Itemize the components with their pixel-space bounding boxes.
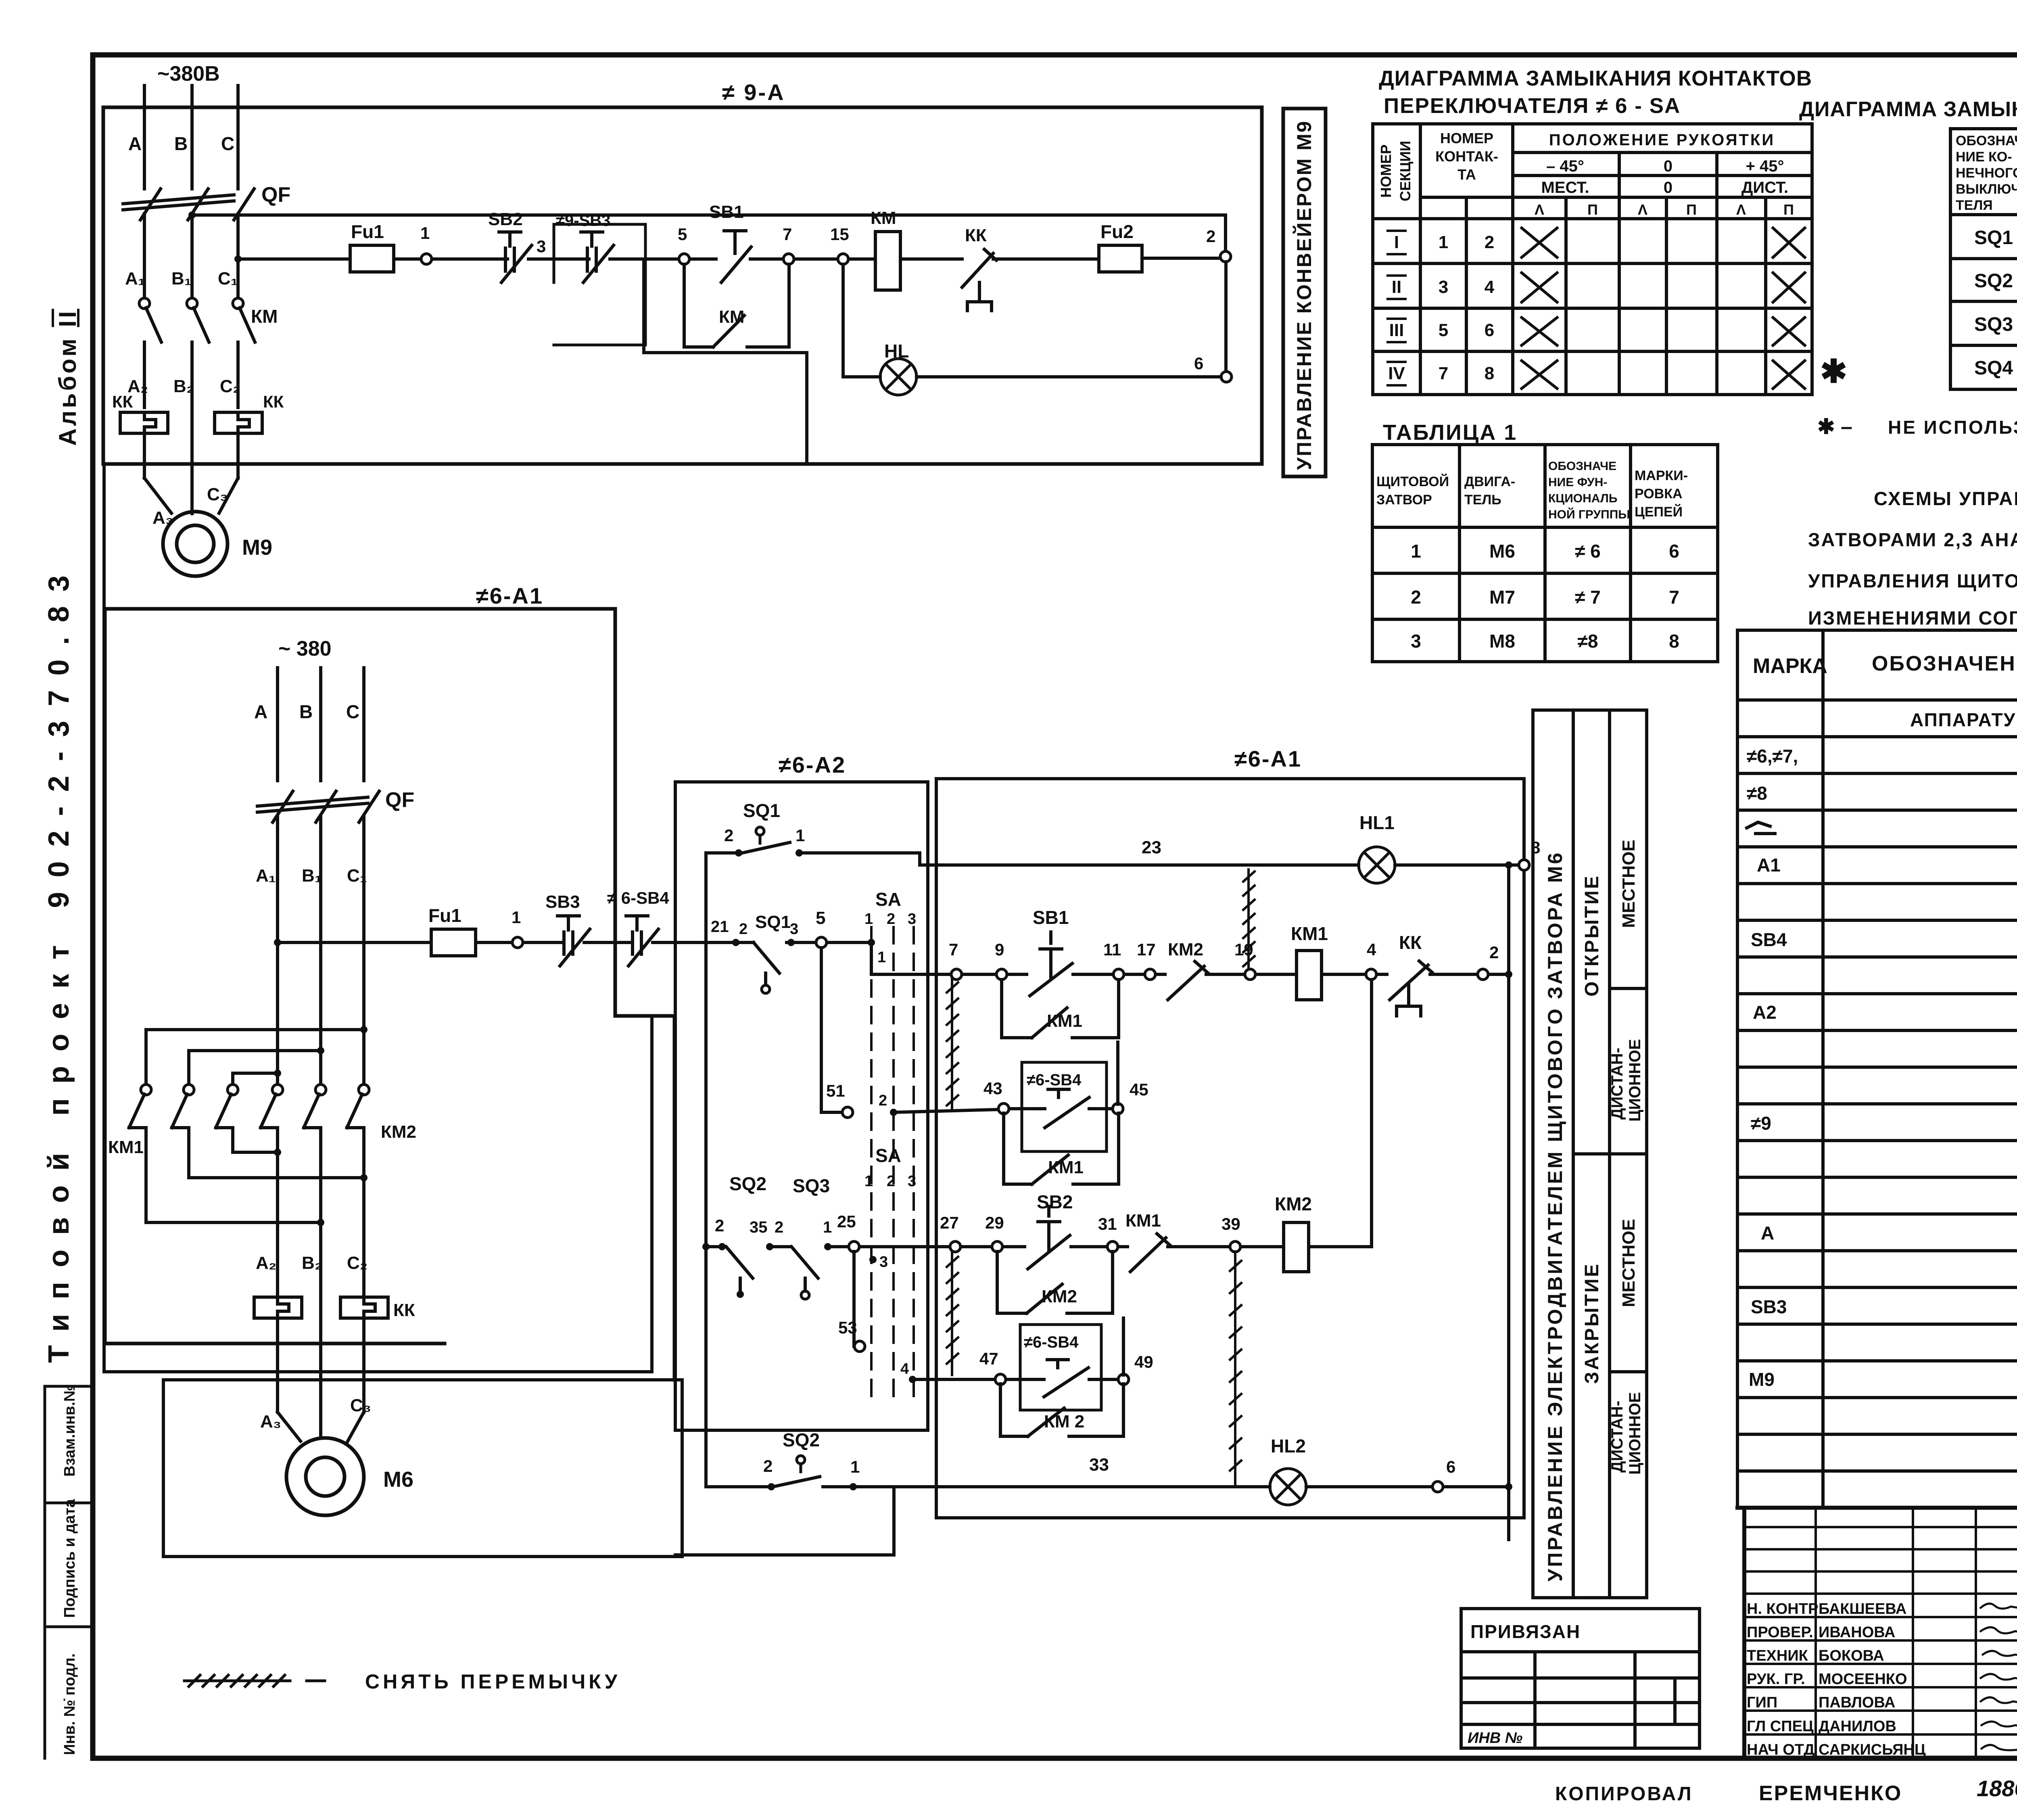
wire 23 row to HL1: [799, 853, 1521, 865]
svg-text:КЦИОНАЛЬ: КЦИОНАЛЬ: [1548, 492, 1617, 505]
svg-text:19: 19: [1234, 940, 1253, 959]
svg-text:В₂: В₂: [173, 376, 194, 396]
push button SB1 (open): [1030, 932, 1072, 996]
svg-text:В: В: [299, 701, 313, 722]
long jumper hatch 39 to 33 rail: [1230, 1252, 1241, 1484]
wire: 9-A control row: [238, 258, 1221, 259]
svg-text:НЕ ИСПОЛЬЗУЕТСЯ: НЕ ИСПОЛЬЗУЕТСЯ: [1888, 417, 2017, 438]
svg-text:≠ 6: ≠ 6: [1575, 541, 1601, 562]
svg-text:7: 7: [783, 225, 792, 244]
svg-text:HL1: HL1: [1359, 812, 1395, 833]
svg-text:ТА: ТА: [1457, 166, 1476, 183]
svg-text:АППАРАТУРА: АППАРАТУРА: [1910, 709, 2017, 730]
svg-text:РОВКА: РОВКА: [1635, 486, 1683, 501]
svg-text:1: 1: [512, 908, 521, 927]
6-SB4 close contact: [1044, 1360, 1088, 1397]
lamp HL: [880, 359, 917, 395]
svg-text:2: 2: [775, 1218, 783, 1236]
svg-text:35: 35: [750, 1218, 768, 1236]
svg-text:НЕЧНОГО: НЕЧНОГО: [1956, 165, 2017, 181]
wires into motor M6: [278, 1318, 364, 1441]
svg-text:ДИСТ.: ДИСТ.: [1741, 179, 1788, 196]
svg-text:МЕСТНОЕ: МЕСТНОЕ: [1619, 1219, 1639, 1307]
svg-text:1: 1: [823, 1218, 832, 1236]
svg-text:ДИСТАН-: ДИСТАН-: [1608, 1401, 1626, 1473]
reversing contactor block KM1/KM2 crossover wires: [360, 1026, 367, 1033]
svg-text:QF: QF: [385, 788, 414, 812]
svg-text:SB1: SB1: [1033, 907, 1069, 928]
svg-text:✱: ✱: [1820, 353, 1847, 389]
svg-text:С₁: С₁: [218, 269, 238, 288]
svg-text:SА: SА: [875, 1145, 901, 1166]
selector switch SA dashed lines (upper): [871, 927, 914, 1396]
svg-text:27: 27: [940, 1213, 959, 1232]
junction dot feed row on phase A: [274, 939, 281, 946]
svg-text:1: 1: [864, 911, 873, 928]
svg-text:Π: Π: [1783, 201, 1794, 218]
svg-text:SB4: SB4: [1751, 929, 1787, 950]
svg-text:КК: КК: [263, 392, 284, 411]
title block outline: [1737, 1508, 2017, 1758]
SA arm node 2: [890, 1109, 897, 1116]
svg-text:ДИАГРАММА ЗАМЫКАНИЯ КОНЕЧНЫ: ДИАГРАММА ЗАМЫКАНИЯ КОНЕЧНЫХ ВЫКЛЮЧАТЕЛЕ…: [1799, 97, 2017, 121]
label column: Mestnoe / Distantsionnoe: [1610, 710, 1647, 1598]
push button 6-SB4: [626, 916, 658, 966]
svg-text:УПРАВЛЕНИЯ ЩИТОВЫМ ЗАТВОРОМ: УПРАВЛЕНИЯ ЩИТОВЫМ ЗАТВОРОМ 1 С: [1808, 570, 2017, 591]
svg-text:SQ2: SQ2: [729, 1173, 766, 1194]
svg-text:1: 1: [1411, 541, 1421, 562]
node 7 (M9): [783, 254, 794, 264]
svg-text:HL: HL: [884, 341, 909, 361]
svg-text:QF: QF: [261, 183, 290, 207]
node 29: [992, 1241, 1002, 1252]
svg-text:ТЕЛЯ: ТЕЛЯ: [1956, 198, 1993, 213]
svg-text:SB3: SB3: [1751, 1296, 1787, 1317]
svg-text:КМ: КМ: [871, 208, 896, 228]
wire: top return of 9-A control: [192, 215, 1226, 250]
svg-text:ЦИОННОЕ: ЦИОННОЕ: [1626, 1039, 1644, 1122]
svg-text:0: 0: [1664, 157, 1672, 175]
KM2 aux contact (remote hold close): [1000, 1384, 1123, 1436]
svg-text:4: 4: [1367, 940, 1376, 959]
SA arm node 4: [909, 1376, 916, 1383]
svg-text:Λ: Λ: [1535, 201, 1544, 218]
svg-text:ОБОЗНАЧЕ: ОБОЗНАЧЕ: [1956, 133, 2017, 148]
svg-text:Альбом II: Альбом II: [54, 309, 81, 446]
lamp HL2: [1270, 1469, 1306, 1505]
svg-text:39: 39: [1221, 1214, 1240, 1233]
SA arm node 3: [869, 1256, 877, 1263]
svg-text:≠8: ≠8: [1747, 783, 1767, 804]
svg-text:3: 3: [1411, 631, 1421, 652]
svg-text:6: 6: [1485, 320, 1494, 340]
svg-text:КМ 2: КМ 2: [1044, 1412, 1084, 1431]
svg-text:ИВАНОВА: ИВАНОВА: [1819, 1624, 1895, 1641]
node 4: [1366, 969, 1376, 980]
node 31: [1107, 1241, 1118, 1252]
svg-text:ПАВЛОВА: ПАВЛОВА: [1819, 1694, 1895, 1711]
svg-text:КМ1: КМ1: [1048, 1158, 1084, 1177]
fuse Fu1 (M9): [350, 245, 394, 272]
svg-text:HL2: HL2: [1271, 1436, 1306, 1456]
svg-text:1: 1: [864, 1173, 873, 1190]
node 6 (M9): [1221, 372, 1232, 382]
svg-text:23: 23: [1142, 838, 1161, 857]
svg-text:3: 3: [908, 1173, 916, 1190]
svg-text:1: 1: [420, 224, 430, 242]
wire: SB3 loop to box bottom: [644, 259, 807, 464]
KM2 self-hold contact: [997, 1252, 1113, 1313]
svg-text:0: 0: [1664, 179, 1672, 196]
svg-text:SB2: SB2: [1037, 1191, 1073, 1212]
svg-text:1: 1: [1439, 232, 1448, 252]
label column: Upravlenie elektrodvigatelem: [1533, 710, 1573, 1598]
phase drops below QF: [144, 214, 238, 299]
svg-text:Fu1: Fu1: [351, 221, 384, 242]
feed row wires (6-SB circuits): [278, 941, 871, 944]
svg-text:5: 5: [678, 225, 687, 244]
wire node49 up to KM2 hold: [1122, 1318, 1125, 1375]
svg-text:В: В: [174, 133, 188, 154]
svg-text:45: 45: [1130, 1080, 1148, 1099]
svg-text:КОПИРОВАЛ: КОПИРОВАЛ: [1555, 1783, 1693, 1805]
svg-text:SQ1: SQ1: [743, 800, 780, 821]
svg-text:ПОЛОЖЕНИЕ РУКОЯТКИ: ПОЛОЖЕНИЕ РУКОЯТКИ: [1549, 131, 1775, 149]
svg-text:2: 2: [879, 1092, 887, 1109]
contactor KM aux self-hold contact (M9): [684, 264, 789, 347]
node 3 dot: [787, 939, 795, 946]
SQ2 make contact (bottom): [797, 1456, 805, 1464]
svg-text:С₃: С₃: [350, 1396, 371, 1415]
svg-text:2: 2: [1411, 587, 1421, 608]
svg-text:7: 7: [1439, 364, 1448, 383]
feed bus inside 6-A2: [704, 853, 708, 1487]
svg-text:А₃: А₃: [260, 1412, 281, 1431]
svg-text:ЦЕПЕЙ: ЦЕПЕЙ: [1635, 504, 1683, 520]
svg-text:В₁: В₁: [171, 269, 192, 288]
node 8: [1519, 860, 1529, 870]
svg-text:7: 7: [949, 940, 958, 959]
parts table grid: [1737, 630, 2017, 1508]
svg-text:СЕКЦИИ: СЕКЦИИ: [1397, 141, 1414, 201]
remote button 6-SB4 (close) box: [1020, 1325, 1101, 1410]
svg-text:33: 33: [1089, 1455, 1109, 1475]
svg-text:БОКОВА: БОКОВА: [1819, 1647, 1884, 1664]
thermal relay KK heaters (M6): [254, 1297, 388, 1318]
svg-text:✱ –: ✱ –: [1817, 415, 1852, 439]
contactor coil KM2: [1284, 1222, 1309, 1272]
svg-text:С: С: [221, 133, 234, 154]
svg-text:МЕСТНОЕ: МЕСТНОЕ: [1619, 840, 1639, 928]
svg-text:ЗАТВОРАМИ 2,3 АНАЛОГИЧНЫ СХ: ЗАТВОРАМИ 2,3 АНАЛОГИЧНЫ СХЕМЕ: [1808, 529, 2017, 550]
svg-text:НАЧ ОТД: НАЧ ОТД: [1747, 1741, 1814, 1758]
svg-text:ПРОВЕР.: ПРОВЕР.: [1747, 1624, 1813, 1641]
svg-text:5: 5: [1439, 320, 1448, 340]
svg-text:ДАНИЛОВ: ДАНИЛОВ: [1819, 1718, 1896, 1735]
node 5 (M9): [679, 254, 689, 264]
svg-text:КМ: КМ: [251, 306, 278, 327]
SQ2 break contact: [726, 1247, 753, 1291]
node 9: [996, 969, 1007, 980]
push button SB1 (M9 start): [721, 231, 751, 282]
svg-text:ЕРЕМЧЕНКО: ЕРЕМЧЕНКО: [1759, 1782, 1902, 1805]
svg-text:5: 5: [816, 908, 825, 928]
svg-text:Π: Π: [1587, 201, 1598, 218]
6-SB4 open contact: [1045, 1089, 1089, 1128]
svg-text:25: 25: [837, 1212, 856, 1231]
svg-text:Инв. №̇ подл.: Инв. №̇ подл.: [61, 1653, 78, 1755]
label column: Otkrytie / Zakrytie: [1573, 710, 1610, 1598]
svg-text:17: 17: [1137, 940, 1156, 959]
svg-text:Λ: Λ: [1736, 201, 1746, 218]
svg-text:УПРАВЛЕНИЕ КОНВЕЙЕРОМ М9: УПРАВЛЕНИЕ КОНВЕЙЕРОМ М9: [1292, 120, 1315, 470]
svg-text:ЗАТВОР: ЗАТВОР: [1376, 492, 1432, 508]
KM1 self-hold contact: [1002, 980, 1119, 1038]
svg-text:ЦИОННОЕ: ЦИОННОЕ: [1626, 1392, 1644, 1475]
push button SB3: [557, 916, 590, 966]
Tablica 1 grid: [1372, 445, 1718, 662]
wire node2 to node6: [1224, 262, 1228, 372]
svg-text:SB2: SB2: [488, 209, 523, 229]
node 6: [1432, 1481, 1443, 1492]
fuse Fu2 (M9): [1099, 245, 1142, 272]
svg-text:КМ1: КМ1: [1125, 1211, 1161, 1231]
svg-text:ЗАКРЫТИЕ: ЗАКРЫТИЕ: [1581, 1262, 1603, 1384]
svg-text:ТЕЛЬ: ТЕЛЬ: [1464, 492, 1501, 508]
wire SA2 to SB4 row: [894, 1109, 1113, 1112]
node 2 (wire 2): [1478, 969, 1488, 980]
svg-text:6: 6: [1669, 541, 1679, 562]
push button SB2 (M9 stop): [499, 232, 532, 282]
wires to motor M9: [144, 433, 238, 513]
push button SB2 (close): [1028, 1206, 1070, 1269]
node 2 (M9): [1220, 251, 1231, 262]
node 35: [766, 1243, 773, 1250]
table SA data rows: [1388, 232, 1495, 383]
node 43: [998, 1103, 1009, 1114]
contactor coil KM (M9): [875, 232, 900, 290]
svg-text:МЕСТ.: МЕСТ.: [1541, 179, 1589, 196]
svg-text:Н. КОНТР: Н. КОНТР: [1747, 1601, 1818, 1617]
contactor KM1 break contact (interlock close): [1130, 1234, 1170, 1272]
svg-text:≠6-SB4: ≠6-SB4: [1027, 1071, 1082, 1089]
node 49: [1118, 1374, 1129, 1385]
svg-text:Λ: Λ: [1638, 201, 1647, 218]
svg-text:4: 4: [1485, 277, 1495, 297]
svg-text:А2: А2: [1753, 1002, 1777, 1023]
svg-text:М6: М6: [1489, 541, 1515, 562]
svg-text:ДИСТАН-: ДИСТАН-: [1608, 1048, 1626, 1120]
svg-text:6: 6: [1194, 354, 1203, 373]
svg-text:КК: КК: [1399, 932, 1422, 953]
junction on phase B at QF output: [188, 211, 196, 219]
svg-text:3: 3: [790, 921, 798, 938]
svg-text:В₂: В₂: [302, 1253, 322, 1273]
svg-text:~ 380: ~ 380: [278, 637, 332, 660]
svg-text:КМ2: КМ2: [381, 1122, 416, 1142]
node 45: [1113, 1103, 1123, 1114]
node 47: [995, 1374, 1006, 1385]
svg-text:КМ: КМ: [719, 307, 745, 327]
circuit breaker QF (M9): [123, 189, 254, 220]
node 25: [849, 1241, 859, 1252]
svg-text:SА: SА: [875, 889, 901, 910]
SQ rows labels: [1974, 227, 2013, 379]
motor M6: [286, 1438, 364, 1515]
title block signature names: [1747, 1601, 1926, 1758]
svg-text:М9: М9: [242, 535, 272, 560]
svg-text:29: 29: [985, 1213, 1004, 1232]
svg-text:С: С: [346, 701, 359, 722]
svg-text:ИЗМЕНЕНИЯМИ СОГЛАСНО ТАБЛИЦЕ: ИЗМЕНЕНИЯМИ СОГЛАСНО ТАБЛИЦЕ 1.: [1808, 607, 2017, 629]
lamp HL wiring: [843, 264, 1221, 377]
jumper hatch mark (23 line to node 19): [1243, 869, 1255, 968]
svg-text:С₂: С₂: [220, 376, 240, 396]
svg-text:САРКИСЬЯНЦ: САРКИСЬЯНЦ: [1819, 1741, 1926, 1758]
left long wire from 9-A down to return rail: [104, 464, 652, 1372]
svg-text:КМ1: КМ1: [108, 1137, 144, 1157]
svg-text:КК: КК: [112, 392, 133, 411]
svg-text:15: 15: [830, 225, 849, 244]
label box Upravlenie konveyerom M9: [1283, 109, 1326, 476]
svg-text:НИЕ КО-: НИЕ КО-: [1956, 149, 2012, 165]
svg-text:МОСЕЕНКО: МОСЕЕНКО: [1819, 1671, 1907, 1688]
node 1: [824, 1243, 831, 1250]
thermal contact KK (M9): [962, 249, 996, 311]
svg-text:Типовой проект 902-2-370.83: Типовой проект 902-2-370.83: [43, 561, 75, 1363]
svg-text:≠ 7: ≠ 7: [1575, 587, 1601, 608]
KM1 aux contact (remote hold): [1004, 1113, 1119, 1184]
svg-text:2: 2: [1485, 232, 1494, 252]
svg-text:Π: Π: [1686, 201, 1697, 218]
svg-text:ОБОЗНАЧЕНИЕ: ОБОЗНАЧЕНИЕ: [1872, 652, 2017, 675]
svg-text:ПЕРЕКЛЮЧАТЕЛЯ ≠ 6 - SA: ПЕРЕКЛЮЧАТЕЛЯ ≠ 6 - SA: [1384, 94, 1681, 118]
table SA headers: [1378, 130, 1794, 218]
svg-text:47: 47: [979, 1349, 998, 1368]
svg-text:МАРКИ-: МАРКИ-: [1635, 468, 1688, 483]
fuse Fu1 (M6): [431, 929, 476, 956]
svg-text:2: 2: [1489, 943, 1499, 962]
bottom row SQ2: [706, 1485, 1509, 1488]
svg-text:2: 2: [763, 1456, 773, 1475]
svg-text:СХЕМЫ УПРАВЛЕНИЯ ЩИТОВЫМИ: СХЕМЫ УПРАВЛЕНИЯ ЩИТОВЫМИ: [1874, 488, 2017, 509]
svg-text:SQ3: SQ3: [793, 1175, 830, 1196]
svg-text:3: 3: [879, 1254, 888, 1270]
svg-text:SQ3: SQ3: [1974, 314, 2013, 335]
svg-text:КМ2: КМ2: [1275, 1193, 1312, 1214]
svg-text:~380В: ~380В: [157, 62, 220, 86]
privyazan box: [1461, 1609, 1700, 1748]
SQ table grid: [1950, 129, 2017, 389]
node 5 (M6 circuit): [816, 937, 827, 948]
node 39: [1230, 1241, 1240, 1252]
svg-text:КМ2: КМ2: [1168, 940, 1203, 959]
svg-text:51: 51: [826, 1081, 845, 1100]
svg-text:SB3: SB3: [545, 892, 580, 912]
svg-text:I: I: [1394, 232, 1399, 252]
svg-text:+ 45°: + 45°: [1746, 157, 1784, 175]
svg-text:8: 8: [1485, 364, 1494, 383]
right return bus: [1507, 865, 1510, 1540]
svg-text:9: 9: [995, 940, 1004, 959]
svg-text:КМ1: КМ1: [1047, 1011, 1082, 1031]
remote button 6-SB4 (open) box: [1022, 1062, 1107, 1151]
wire node5 to node 51: [821, 948, 843, 1112]
svg-text:А1: А1: [1757, 855, 1781, 876]
svg-text:М7: М7: [1489, 587, 1515, 608]
svg-text:СНЯТЬ ПЕРЕМЫЧКУ: СНЯТЬ ПЕРЕМЫЧКУ: [365, 1670, 620, 1693]
node 27 with hatch below: [950, 1241, 960, 1252]
push button 9-SB3 (remote stop): [581, 232, 614, 282]
svg-text:КК: КК: [393, 1300, 415, 1320]
svg-text:ТЕХНИК: ТЕХНИК: [1747, 1647, 1808, 1664]
box 6-A2 lower step: [675, 1489, 894, 1555]
motor M9: [163, 512, 228, 576]
motor box M6: [163, 1380, 682, 1557]
svg-text:7: 7: [1669, 587, 1679, 608]
svg-text:3: 3: [1439, 277, 1448, 297]
KM2 contacts (right three): [261, 1084, 369, 1128]
SA contact arm node 1: [868, 939, 875, 946]
svg-text:А: А: [128, 133, 142, 154]
box 6-A2: [675, 782, 928, 1430]
svg-text:С₁: С₁: [347, 866, 367, 886]
box 6-A1 power: [105, 609, 674, 1380]
phase lines A B C (M6 feed): [278, 668, 364, 781]
svg-text:2: 2: [887, 911, 895, 928]
junction on phase C: [234, 255, 242, 263]
svg-text:М8: М8: [1489, 631, 1515, 652]
thermal relay KK heaters (M9): [120, 412, 262, 433]
svg-text:А₂: А₂: [256, 1253, 276, 1273]
svg-text:Fu1: Fu1: [428, 905, 461, 926]
svg-text:18864-01: 18864-01: [1977, 1776, 2017, 1801]
svg-text:ОБОЗНАЧЕ: ОБОЗНАЧЕ: [1548, 460, 1616, 473]
table SA X marks: [1522, 228, 1805, 389]
svg-text:С₃: С₃: [207, 485, 228, 504]
svg-text:II: II: [1392, 277, 1401, 297]
svg-text:8: 8: [1669, 631, 1679, 652]
SQ3 break contact: [791, 1247, 818, 1291]
svg-text:ДИАГРАММА ЗАМЫКАНИЯ КОНТАКТО: ДИАГРАММА ЗАМЫКАНИЯ КОНТАКТОВ: [1379, 67, 1812, 90]
svg-text:SQ2: SQ2: [783, 1429, 820, 1450]
svg-text:SB1: SB1: [709, 202, 744, 222]
svg-text:49: 49: [1134, 1352, 1153, 1371]
svg-text:М9: М9: [1749, 1369, 1775, 1390]
KM1 contacts (left three): [129, 1084, 238, 1222]
svg-text:2: 2: [724, 826, 733, 845]
svg-text:III: III: [1389, 320, 1404, 340]
svg-text:КМ2: КМ2: [1042, 1287, 1077, 1306]
wire from SA to open-control row: [871, 942, 951, 974]
svg-text:SQ1: SQ1: [755, 912, 791, 932]
svg-text:МАРКА: МАРКА: [1753, 654, 1827, 678]
svg-text:ПРИВЯЗАН: ПРИВЯЗАН: [1470, 1621, 1581, 1642]
svg-text:≠6,≠7,: ≠6,≠7,: [1747, 746, 1798, 767]
svg-text:А: А: [1761, 1222, 1774, 1243]
svg-text:≠ 6-SB4: ≠ 6-SB4: [607, 888, 669, 907]
node 1 (M9): [421, 254, 432, 264]
box 6-A1 control: [936, 779, 1524, 1518]
node 19 with jumper hatch: [1245, 969, 1255, 980]
thermal contact KK (M6): [1390, 961, 1432, 1016]
svg-text:1: 1: [850, 1457, 860, 1476]
wire SA4 to SB4 close row: [912, 1378, 1118, 1381]
svg-text:21: 21: [711, 918, 729, 936]
table SA grid: [1373, 124, 1812, 395]
svg-text:НИЕ ФУН-: НИЕ ФУН-: [1548, 476, 1607, 489]
svg-text:ВЫКЛЮЧА: ВЫКЛЮЧА: [1956, 182, 2017, 197]
